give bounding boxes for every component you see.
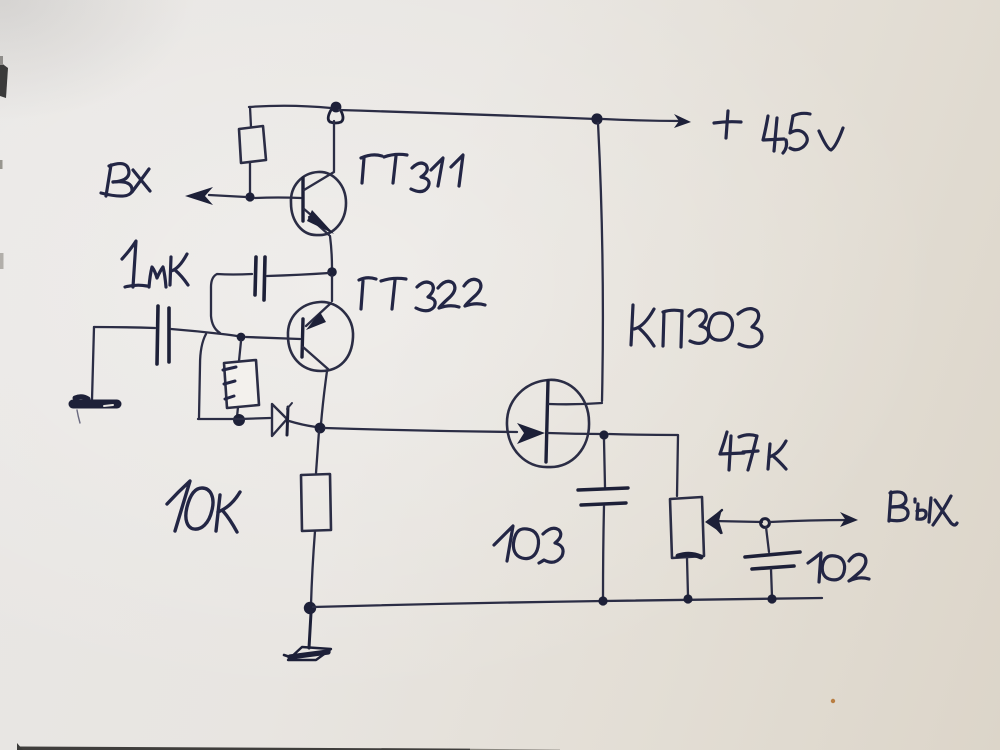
label KP303 <box>631 305 762 347</box>
node rail junction under 102 <box>767 594 776 603</box>
photo artifact left edge dark mark <box>0 56 8 98</box>
wire input cap left lead <box>94 327 155 328</box>
diode D1 cathode bar <box>287 403 292 435</box>
ground left <box>73 397 117 423</box>
resistor R2 white-out corrected <box>223 360 259 408</box>
wire GT322 collector down <box>321 371 327 424</box>
transistor Q2 GT322 circle <box>288 302 353 371</box>
label Vx <box>101 164 150 197</box>
label GT311 <box>361 154 463 191</box>
wire R1 top lead <box>250 107 251 127</box>
wire feedback cap left lead hooking into base wire <box>211 274 252 333</box>
resistor R3 10k <box>301 474 331 531</box>
wire arrow to +4.5V <box>603 114 691 128</box>
capacitor feedback right plate <box>264 257 265 300</box>
capacitor C102 top plate <box>745 552 800 557</box>
wire R2 bottom lead <box>237 407 238 417</box>
transistor U1 channel bar <box>546 381 548 462</box>
node rail junction under pot <box>683 594 692 603</box>
wire input cap right lead <box>171 329 237 336</box>
wire ground stem <box>309 613 311 648</box>
wire output arrow <box>770 512 858 527</box>
wire top rail right segment <box>339 110 596 119</box>
label 103 <box>494 526 563 563</box>
photo artifact orange speck <box>831 699 835 703</box>
wire pot bottom lead <box>687 558 688 596</box>
wire supply drop to FET drain <box>598 123 603 401</box>
transistor Q1 base bar <box>301 178 304 221</box>
wire bottom left segment to diode <box>198 418 270 419</box>
transistor Q2 base bar <box>302 319 303 357</box>
ground bottom <box>284 647 331 660</box>
capacitor feedback left plate <box>255 257 256 295</box>
wire R2 top lead <box>239 341 241 361</box>
capacitor C102 bottom plate <box>752 566 794 569</box>
wire bottom rail <box>313 598 822 607</box>
label 47k <box>720 432 786 470</box>
transistor U1 gate arrow <box>517 423 545 444</box>
label +4,5V <box>714 111 843 153</box>
wire cap102 bottom lead <box>771 569 772 597</box>
node emitter junction dot <box>327 267 337 277</box>
wire emitter junction to GT322 <box>331 276 333 301</box>
wire R1 bottom lead <box>249 162 251 194</box>
wire GT322 base lead <box>246 337 300 339</box>
capacitor input right plate <box>167 308 171 362</box>
node rail junction under 103 <box>598 596 607 605</box>
wire cap102 top lead <box>766 527 769 552</box>
label 10k <box>167 481 240 532</box>
photo artifact left edge faint mark <box>0 253 4 269</box>
wire FET drain horizontal <box>549 403 602 404</box>
label 102 <box>808 553 869 582</box>
wire Q1 collector to rail <box>333 121 335 171</box>
photo artifact bottom paper edge <box>17 743 560 750</box>
label GT322 <box>359 278 485 311</box>
transistor Q1 collector stroke <box>304 172 334 190</box>
node bottom rail left junction <box>304 602 316 614</box>
wire 10k bottom lead <box>311 531 315 605</box>
potentiometer R4 47k body <box>670 497 704 558</box>
wire drop from base wire to bottom rail <box>199 334 206 418</box>
transistor Q2 emitter stroke with inward arrow <box>306 303 331 330</box>
node GT311 base junction <box>245 192 254 201</box>
wire cap103 bottom lead <box>603 506 604 599</box>
wire cap103 top lead <box>604 440 605 487</box>
node GT322 base junction <box>237 333 246 342</box>
node gate junction blob <box>315 423 326 434</box>
wire gate to FET <box>325 428 517 432</box>
label 1mk <box>122 241 188 287</box>
wire GT311 base lead <box>255 196 301 199</box>
wiper arrow into pot <box>705 509 762 534</box>
wire left drop to ground <box>92 327 94 400</box>
capacitor C103 bottom plate <box>581 503 626 505</box>
diode D1 triangle <box>272 404 287 436</box>
wire 10k top lead <box>316 431 319 473</box>
photo artifact left edge small mark <box>0 160 3 169</box>
transistor U1 KP303 circle <box>507 380 589 467</box>
node R2 bottom junction blob <box>233 414 245 426</box>
node FET source junction <box>599 430 608 439</box>
transistor Q1 emitter stroke with arrow <box>304 209 334 235</box>
node output ring <box>761 519 770 528</box>
capacitor C103 top plate <box>578 488 628 490</box>
wire FET source to node <box>548 433 602 434</box>
wire top rail left segment <box>249 106 331 108</box>
wire feedback cap right lead <box>267 273 329 276</box>
wire Vx input arrow <box>185 187 246 205</box>
capacitor input left plate <box>157 306 158 364</box>
node supply junction dot <box>591 113 602 124</box>
wire source node to pot <box>609 434 678 496</box>
transistor Q1 GT311 circle <box>291 172 346 235</box>
resistor R1 collector load of GT311 <box>239 126 266 163</box>
transistor Q2 collector stroke <box>303 347 328 369</box>
node supply knot junction <box>328 102 343 123</box>
wire diode to gate node <box>289 421 316 427</box>
wire Q1 emitter down <box>330 236 332 268</box>
label Vyx output <box>889 492 957 525</box>
